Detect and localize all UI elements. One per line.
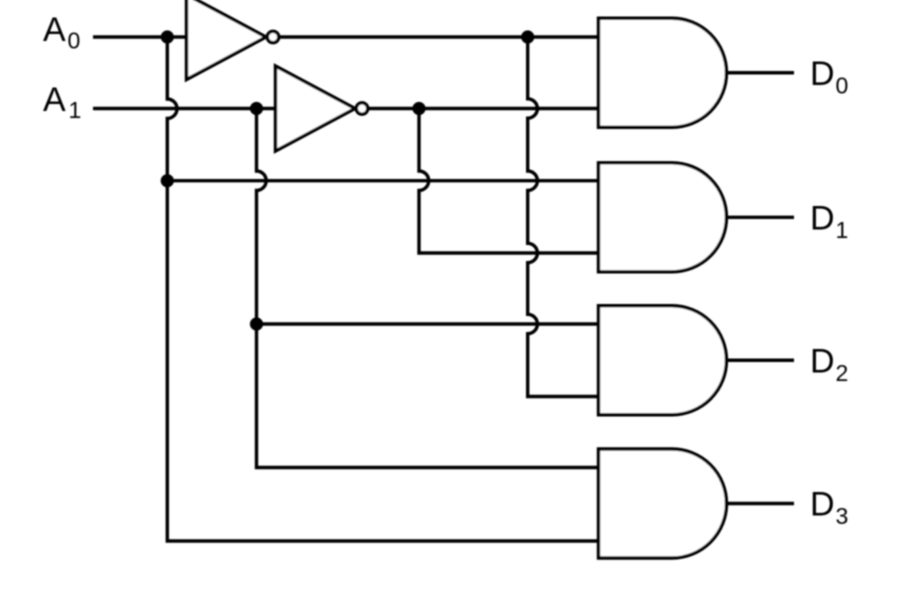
svg-text:0: 0 bbox=[836, 73, 849, 99]
wire output stub D2 bbox=[727, 359, 795, 362]
junction dot A1 / inverter U2 input bbox=[250, 102, 263, 115]
wire vertical NOT-A0 branch with four hops, to AND U5 bottom input bbox=[528, 37, 599, 397]
wire output stub D3 bbox=[727, 502, 795, 505]
input label A1 bbox=[43, 81, 81, 123]
inverter U2 triangle bbox=[276, 66, 356, 151]
output label D0 bbox=[810, 55, 848, 99]
AND gate U3 (D0) bbox=[599, 18, 727, 127]
wire A0 branch row to AND U4 top input bbox=[167, 179, 598, 182]
input label A0 bbox=[43, 11, 80, 54]
wire vertical A1 branch with hop, down to AND U6 top input bbox=[257, 109, 599, 468]
inverter U1 triangle bbox=[187, 0, 267, 80]
junction dot A0 branch row bbox=[161, 174, 174, 187]
svg-text:1: 1 bbox=[69, 97, 82, 123]
junction dot NOT-A0 tap bbox=[521, 30, 534, 43]
wire output stub D0 bbox=[727, 71, 795, 74]
svg-text:A: A bbox=[43, 11, 66, 49]
svg-text:D: D bbox=[810, 486, 835, 524]
svg-text:A: A bbox=[43, 81, 66, 119]
svg-text:D: D bbox=[810, 200, 835, 238]
output label D2 bbox=[810, 343, 848, 387]
svg-text:0: 0 bbox=[68, 28, 81, 54]
wire vertical A0 branch with hop over A1 row, down to AND U6 bottom input bbox=[167, 37, 598, 541]
wire A1 input lead bbox=[93, 107, 276, 110]
svg-text:1: 1 bbox=[836, 217, 849, 243]
svg-text:3: 3 bbox=[836, 503, 849, 529]
AND gate U5 (D2) bbox=[599, 306, 727, 415]
wire inverter U1 output to AND U3 top input bbox=[280, 35, 599, 38]
junction dot A0 / inverter U1 input bbox=[161, 30, 174, 43]
AND gate U6 (D3) bbox=[599, 449, 727, 558]
output label D1 bbox=[810, 200, 848, 244]
wire A1 branch row to AND U5 top input bbox=[257, 322, 599, 325]
wire output stub D1 bbox=[727, 216, 795, 219]
wire inverter U2 output to AND U3 bottom input bbox=[369, 107, 599, 110]
wire vertical NOT-A1 branch with hop, to AND U4 bottom input bbox=[419, 109, 599, 254]
svg-text:D: D bbox=[810, 55, 835, 93]
inverter U2 bubble bbox=[356, 103, 367, 114]
AND gate U4 (D1) bbox=[599, 163, 727, 272]
output label D3 bbox=[810, 486, 848, 530]
svg-text:D: D bbox=[810, 343, 835, 381]
junction dot NOT-A1 tap bbox=[412, 102, 425, 115]
wire A0 input lead bbox=[93, 35, 187, 38]
svg-text:2: 2 bbox=[836, 360, 849, 386]
junction dot A1 branch row bbox=[250, 317, 263, 330]
inverter U1 bubble bbox=[267, 31, 278, 42]
